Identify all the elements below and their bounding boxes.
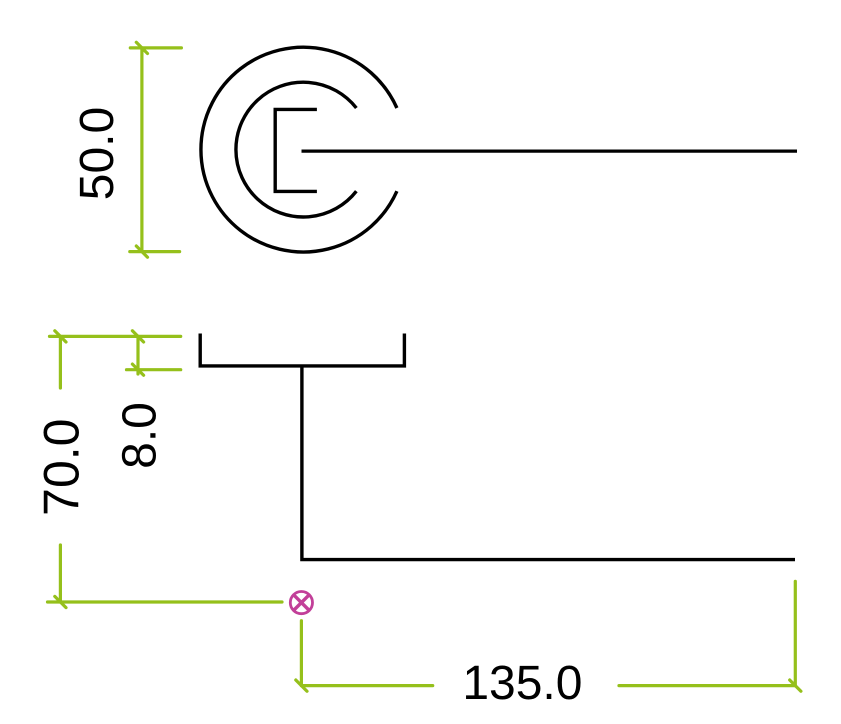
tick bottom	[55, 596, 66, 607]
dimension line	[136, 336, 139, 374]
rose profile	[200, 334, 404, 366]
extension line bottom	[130, 250, 180, 253]
lever centerline (top view)	[302, 149, 798, 152]
inner rose circle (arc with gap at right)	[236, 82, 356, 217]
extension line at lever end	[794, 581, 797, 685]
svg-text:135.0: 135.0	[462, 657, 582, 710]
tick top	[136, 42, 147, 53]
lever neck and grip	[302, 366, 795, 560]
extension line below datum	[300, 621, 303, 686]
extension line datum level	[48, 600, 283, 603]
tick left	[296, 680, 307, 691]
tick bottom	[136, 246, 147, 257]
dimension line left segment	[301, 684, 432, 687]
tick bottom	[132, 364, 143, 375]
extension line rose bottom	[127, 368, 181, 371]
dimension line upper segment	[59, 336, 62, 388]
extension line rose top	[50, 335, 181, 338]
dimension line lower segment	[59, 545, 62, 602]
dimension line right segment	[619, 684, 795, 687]
square spindle bracket	[275, 109, 317, 191]
tick top	[132, 331, 143, 342]
extension line top	[130, 46, 181, 49]
dimension line	[140, 48, 143, 252]
svg-text:70.0: 70.0	[33, 419, 89, 516]
tick top	[55, 331, 66, 342]
tick right	[790, 680, 801, 691]
svg-text:50.0: 50.0	[71, 107, 124, 200]
outer rose circle (arc with gap at right)	[201, 47, 397, 252]
svg-text:8.0: 8.0	[114, 402, 167, 469]
